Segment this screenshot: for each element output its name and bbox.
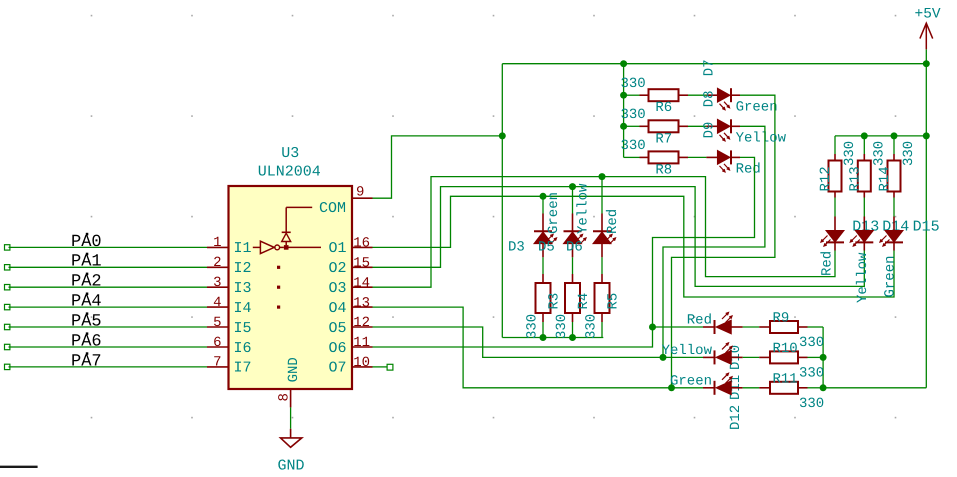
U3 pin 12 stub: [352, 326, 373, 328]
ref label R12 (rotated): [818, 166, 834, 191]
junction R7 feed: [620, 123, 627, 130]
wire feed to R7: [624, 125, 640, 127]
svg-text:O1: O1: [328, 240, 346, 257]
wire COM pin9 to +5V rail: [373, 136, 503, 198]
resistor R7: [640, 120, 689, 132]
resistor R4: [565, 274, 580, 322]
U3 pin name I5: [234, 320, 252, 337]
U3 pin 9 stub (COM): [352, 197, 373, 199]
U3 pin name O6: [328, 340, 346, 357]
junction bottom Red row: [649, 324, 656, 331]
U3 value label ULN2004: [258, 163, 321, 180]
U3 pin 3 stub: [207, 286, 229, 288]
wire +5V top rail: [502, 63, 926, 65]
svg-text:330: 330: [584, 314, 600, 339]
svg-text:R13: R13: [847, 166, 863, 191]
ref label D5: [538, 240, 555, 256]
wire row to D12 cathode: [672, 387, 704, 389]
unconnected end PA0: [5, 245, 10, 250]
color label Yellow (D11): [662, 343, 713, 359]
value label 330 (R13) rotated: [871, 141, 887, 166]
svg-text:Yellow: Yellow: [576, 183, 592, 234]
wire row to D10 cathode: [653, 326, 704, 328]
value label 330 (R12) rotated: [842, 141, 858, 166]
net label PA0: [71, 233, 102, 252]
junction +5V rail / R6 feed: [620, 60, 627, 67]
svg-text:330: 330: [799, 396, 824, 412]
svg-text:330: 330: [901, 141, 917, 166]
U3 pin name O4: [328, 300, 346, 317]
ground symbol: [281, 429, 302, 448]
wire input PA5: [9, 326, 208, 328]
LED D7: [706, 88, 740, 110]
junction R12 rail / right vertical: [923, 132, 930, 139]
U3 pin 4 stub: [207, 306, 229, 308]
color label Red (D13) rotated: [820, 251, 836, 276]
junction R11 common: [820, 384, 827, 391]
U3 pin 2 stub: [207, 266, 229, 268]
ref label D14: [882, 219, 909, 236]
ref label R9: [773, 311, 790, 327]
color label Red (D6) rotated: [605, 209, 621, 234]
svg-text:2: 2: [213, 255, 221, 271]
unconnected end PA4: [5, 304, 10, 309]
svg-text:12: 12: [353, 315, 370, 331]
wire D6 to R5: [601, 257, 603, 274]
svg-text:D9: D9: [702, 122, 718, 139]
svg-text:R6: R6: [655, 100, 672, 116]
U3 pin 10 stub: [352, 366, 373, 368]
U3 pin number 6: [213, 335, 221, 351]
ref label R14 (rotated): [877, 166, 893, 191]
wire D10 to R9: [743, 326, 760, 328]
U3 pin name O5: [328, 320, 346, 337]
color label Red (D10): [687, 313, 712, 329]
value label 330 (R11): [799, 396, 824, 412]
svg-text:Green: Green: [546, 192, 562, 234]
svg-text:330: 330: [621, 76, 646, 92]
ref label R10: [773, 341, 798, 357]
svg-text:PA5: PA5: [71, 312, 102, 331]
svg-text:R7: R7: [655, 131, 672, 147]
svg-text:D15: D15: [913, 219, 940, 236]
svg-text:GND: GND: [278, 457, 305, 474]
ref label R13 (rotated): [847, 166, 863, 191]
junction O2 branch: [569, 183, 576, 190]
U3 pin number 5: [213, 315, 221, 331]
wire O7 stub: [373, 366, 388, 368]
junction R4 bottom rail: [569, 334, 576, 341]
junction bottom Yellow row: [660, 354, 667, 361]
wire R3 to rail: [542, 322, 544, 338]
svg-text:R3: R3: [547, 293, 563, 310]
wire D7 cathode routing: [672, 95, 775, 388]
U3 pin number 1: [213, 235, 221, 251]
U3 pin number 2: [213, 255, 221, 271]
IC U3 ULN2004 body: [229, 186, 353, 389]
svg-text:I4: I4: [234, 300, 252, 317]
svg-text:PA4: PA4: [71, 293, 102, 312]
ref label D3: [508, 240, 525, 256]
wire rail to R14: [893, 136, 895, 154]
U3 pin number 7: [213, 355, 221, 371]
wire input PA6: [9, 346, 208, 348]
ref label R5 (rotated): [606, 293, 622, 310]
LED D14: [850, 217, 873, 251]
net label PA5: [71, 312, 102, 331]
svg-text:R10: R10: [773, 341, 798, 357]
power symbol +5V: [920, 23, 933, 64]
svg-text:10: 10: [353, 355, 370, 371]
svg-text:O2: O2: [328, 260, 346, 277]
wire R5 to rail: [601, 322, 603, 338]
resistor R5: [595, 274, 610, 322]
wire +5V left vertical: [501, 64, 503, 338]
U3 pin number 14: [353, 275, 370, 291]
net label PA2: [71, 273, 102, 292]
wire branch to D6: [601, 177, 603, 214]
color label Yellow (D8): [736, 131, 787, 147]
wire input PA2: [9, 286, 208, 288]
svg-text:I7: I7: [234, 360, 252, 377]
svg-text:D5: D5: [538, 240, 555, 256]
svg-text:Yellow: Yellow: [855, 252, 871, 303]
svg-text:Green: Green: [670, 373, 712, 389]
ref label D6: [566, 240, 583, 256]
svg-text:U3: U3: [281, 145, 299, 162]
wire R8 to D9: [688, 156, 706, 158]
svg-text:PA0: PA0: [71, 233, 102, 252]
svg-text:Red: Red: [820, 251, 836, 276]
svg-text:I2: I2: [234, 260, 252, 277]
svg-text:PA6: PA6: [71, 332, 102, 351]
U3 internal clamp diode to COM: [282, 207, 313, 245]
U3 repetition dots: [277, 266, 280, 309]
U3 pin name O2: [328, 260, 346, 277]
wire branch to D3: [542, 196, 544, 213]
value label 330 (R14) rotated: [901, 141, 917, 166]
U3 pin name I6: [234, 340, 252, 357]
wire +5V rail to R12-R14 tops: [835, 135, 926, 137]
wire input PA0: [9, 246, 208, 248]
wire +5V bottom to R9-R11 common: [823, 387, 926, 389]
svg-text:D7: D7: [702, 59, 718, 76]
svg-text:330: 330: [842, 141, 858, 166]
svg-text:3: 3: [213, 275, 221, 291]
U3 pin number 13: [353, 295, 370, 311]
junction O3 branch: [599, 173, 606, 180]
svg-text:R14: R14: [877, 166, 893, 191]
wire R10 to common: [808, 356, 824, 358]
net label PA4: [71, 293, 102, 312]
svg-text:13: 13: [353, 295, 370, 311]
wire O3 net: [373, 177, 836, 288]
wire rail to R13: [863, 136, 865, 154]
svg-text:PA2: PA2: [71, 273, 102, 292]
svg-text:14: 14: [353, 275, 370, 291]
U3 pin 7 stub: [207, 366, 229, 368]
U3 internal junction square: [284, 245, 289, 250]
svg-text:Green: Green: [736, 100, 778, 116]
svg-text:I5: I5: [234, 320, 252, 337]
junction R13 top rail: [861, 132, 868, 139]
wire R9-R11 common vertical: [822, 327, 824, 388]
LED D3: [534, 214, 557, 258]
wire rail to R12: [834, 136, 836, 154]
U3 pin 8 stub (GND): [290, 389, 292, 407]
ref label R7: [655, 131, 672, 147]
wire D3 to R3: [542, 257, 544, 274]
svg-text:PA7: PA7: [71, 352, 102, 371]
svg-text:I1: I1: [234, 240, 252, 257]
resistor R9: [759, 321, 807, 333]
wire O5 net to bottom Yellow row: [373, 327, 664, 357]
LED D13: [821, 217, 844, 251]
value label 330 (R8): [621, 138, 646, 154]
svg-text:GND: GND: [286, 357, 302, 382]
svg-text:Red: Red: [736, 162, 761, 178]
junction COM / +5V vertical: [499, 132, 506, 139]
svg-text:330: 330: [799, 365, 824, 381]
LED D9: [706, 150, 740, 172]
U3 pin name I2: [234, 260, 252, 277]
wire R6 to D7: [688, 94, 706, 96]
resistor R3: [536, 274, 551, 322]
wire O6 net to bottom Red row: [373, 327, 653, 347]
wire input PA7: [9, 366, 208, 368]
color label Yellow (D5) rotated: [576, 183, 592, 234]
U3 pin name I3: [234, 280, 252, 297]
ref label D12 (rotated): [728, 405, 744, 430]
U3 pin 15 stub: [352, 266, 373, 268]
ref label D11 (rotated): [728, 375, 744, 400]
unconnected end PA7: [5, 364, 10, 369]
wire R12 to D13: [834, 198, 836, 217]
svg-text:5: 5: [213, 315, 221, 331]
wire input PA4: [9, 306, 208, 308]
svg-text:O3: O3: [328, 280, 346, 297]
svg-text:330: 330: [525, 314, 541, 339]
net label PA1: [71, 253, 102, 272]
wire feed to R8: [624, 156, 640, 158]
junction R6 feed: [620, 92, 627, 99]
U3 pin 6 stub: [207, 346, 229, 348]
net label PA6: [71, 332, 102, 351]
svg-text:O4: O4: [328, 300, 346, 317]
svg-text:330: 330: [621, 138, 646, 154]
color label Green (D3) rotated: [546, 192, 562, 234]
LED D6: [593, 214, 616, 258]
U3 pin name I1: [234, 240, 252, 257]
svg-text:Green: Green: [883, 255, 899, 297]
svg-text:D8: D8: [702, 90, 718, 107]
unconnected end PA1: [5, 265, 10, 270]
ref label D15: [913, 219, 940, 236]
svg-text:330: 330: [621, 107, 646, 123]
sheet border segment bottom-left: [0, 466, 38, 468]
value label 330 (R5) rotated: [584, 314, 600, 339]
unconnected end PA2: [5, 285, 10, 290]
wire D12 to R11: [743, 387, 760, 389]
U3 pin 5 stub: [207, 326, 229, 328]
wire +5V rail under R3-R5: [502, 337, 603, 339]
svg-text:1: 1: [213, 235, 221, 251]
svg-text:R4: R4: [576, 293, 592, 310]
svg-text:R12: R12: [818, 166, 834, 191]
U3 internal buffer symbol: [253, 241, 321, 253]
wire R13 to D14: [863, 198, 865, 217]
resistor R14: [888, 154, 901, 198]
U3 pin name COM: [319, 200, 346, 217]
svg-text:7: 7: [213, 355, 221, 371]
svg-text:O6: O6: [328, 340, 346, 357]
U3 pin 11 stub: [352, 346, 373, 348]
svg-text:R5: R5: [606, 293, 622, 310]
junction +5V rail / right vertical: [923, 60, 930, 67]
ref label R4 (rotated): [576, 293, 592, 310]
wire R4 to rail: [572, 322, 574, 338]
ref label D8 (rotated): [702, 90, 718, 107]
svg-text:330: 330: [871, 141, 887, 166]
LED D11: [703, 343, 743, 365]
svg-text:16: 16: [353, 236, 370, 252]
U3 pin number 8 (rotated): [277, 393, 293, 401]
wire D9 cathode routing: [653, 157, 755, 327]
svg-text:6: 6: [213, 335, 221, 351]
resistor R10: [759, 351, 807, 363]
ref label D9 (rotated): [702, 122, 718, 139]
wire R14 to D15: [893, 198, 895, 217]
LED D5: [564, 214, 587, 258]
LED D10: [703, 313, 743, 335]
wire +5V right vertical: [925, 64, 927, 388]
wire O1 net: [373, 196, 895, 297]
ref label R3 (rotated): [547, 293, 563, 310]
U3 pin 13 stub: [352, 306, 373, 308]
unconnected end PA6: [5, 344, 10, 349]
svg-text:O5: O5: [328, 320, 346, 337]
svg-text:COM: COM: [319, 200, 346, 217]
resistor R6: [640, 89, 689, 101]
junction O1 branch: [540, 193, 547, 200]
svg-text:Yellow: Yellow: [662, 343, 713, 359]
value label 330 (R3) rotated: [525, 314, 541, 339]
resistor R8: [640, 151, 689, 163]
junction R10 common: [820, 354, 827, 361]
U3 pin 1 stub: [207, 246, 229, 248]
svg-text:330: 330: [554, 314, 570, 339]
color label Green (D15) rotated: [883, 255, 899, 297]
wire O4 net to bottom Green row: [373, 307, 672, 388]
LED D12: [703, 373, 743, 395]
svg-text:9: 9: [356, 185, 364, 201]
svg-text:4: 4: [213, 295, 221, 311]
ref label R6: [655, 100, 672, 116]
junction R14 top rail: [891, 132, 898, 139]
wire branch to D5: [572, 187, 574, 214]
U3 pin number 3: [213, 275, 221, 291]
U3 pin name O7: [328, 360, 346, 377]
LED D8: [706, 119, 740, 141]
wire D5 to R4: [572, 257, 574, 274]
U3 pin number 15: [353, 256, 370, 272]
value label 330 (R6): [621, 76, 646, 92]
svg-text:D6: D6: [566, 240, 583, 256]
U3 pin number 12: [353, 315, 370, 331]
U3 pin number 11: [353, 335, 370, 351]
color label Green (D7): [736, 100, 778, 116]
svg-text:8: 8: [277, 393, 293, 401]
wire D11 to R10: [743, 356, 760, 358]
resistor R12: [829, 154, 842, 198]
U3 pin number 16: [353, 236, 370, 252]
svg-text:O7: O7: [328, 360, 346, 377]
svg-text:Red: Red: [605, 209, 621, 234]
ref label D10 (rotated): [728, 345, 744, 370]
wire row to D11 cathode: [663, 356, 703, 358]
value label 330 (R4) rotated: [554, 314, 570, 339]
wire R9 to common: [808, 326, 824, 328]
U3 pin 16 stub: [352, 246, 373, 248]
unconnected end O7: [387, 364, 393, 370]
color label Yellow (D14) rotated: [855, 252, 871, 303]
ref label D7 (rotated): [702, 59, 718, 76]
wire pin8 to GND: [290, 407, 292, 428]
color label Green (D12): [670, 373, 712, 389]
U3 pin number 10: [353, 355, 370, 371]
svg-text:Red: Red: [687, 313, 712, 329]
svg-text:PA1: PA1: [71, 253, 102, 272]
resistor R13: [858, 154, 871, 198]
U3 pin 14 stub: [352, 286, 373, 288]
svg-text:D12: D12: [728, 405, 744, 430]
ref label R11: [773, 371, 798, 387]
wire R11 to common: [808, 387, 824, 389]
power label +5V: [915, 7, 941, 23]
wire D8 cathode routing: [663, 126, 765, 357]
junction bottom Green row: [668, 384, 675, 391]
svg-text:R11: R11: [773, 371, 798, 387]
value label 330 (R7): [621, 107, 646, 123]
U3 pin number 4: [213, 295, 221, 311]
ref label D13: [852, 219, 879, 236]
wire O2 net: [373, 187, 865, 287]
svg-text:D3: D3: [508, 240, 525, 256]
U3 pin name O3: [328, 280, 346, 297]
svg-text:I3: I3: [234, 280, 252, 297]
U3 reference label: [281, 145, 299, 162]
U3 pin number 9: [356, 185, 364, 201]
U3 pin name GND (rotated): [286, 357, 302, 382]
U3 pin name I4: [234, 300, 252, 317]
value label 330 (R9): [799, 335, 824, 351]
unconnected end PA5: [5, 324, 10, 329]
color label Red (D9): [736, 162, 761, 178]
svg-text:Yellow: Yellow: [736, 131, 787, 147]
svg-text:R9: R9: [773, 311, 790, 327]
ground net label GND: [278, 457, 305, 474]
svg-text:ULN2004: ULN2004: [258, 163, 321, 180]
U3 pin name O1: [328, 240, 346, 257]
LED D15: [880, 217, 903, 251]
net label PA7: [71, 352, 102, 371]
wire feed to R6: [624, 94, 640, 96]
U3 pin name I7: [234, 360, 252, 377]
wire input PA1: [9, 266, 208, 268]
junction R3 bottom rail: [540, 334, 547, 341]
wire R7 to D8: [688, 125, 706, 127]
svg-text:11: 11: [353, 335, 370, 351]
